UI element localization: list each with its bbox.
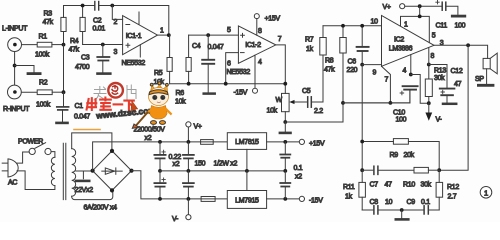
wire pin9 feed: [362, 64, 381, 66]
junction dot output IC1-1: [167, 33, 171, 37]
junction dot film cap mid: [187, 169, 191, 173]
connector J2 R-INPUT jack: [7, 85, 21, 99]
svg-text:x2: x2: [295, 174, 302, 181]
watermark char outline 2: [127, 85, 136, 99]
resistor R4: [80, 6, 85, 45]
svg-text:V+: V+: [383, 4, 391, 11]
svg-text:C8: C8: [370, 199, 379, 206]
wire C6 column down: [361, 65, 363, 171]
svg-text:R12: R12: [447, 184, 459, 191]
svg-text:7: 7: [385, 77, 389, 84]
wire top input LM3886: [323, 25, 382, 27]
resistor R6: [186, 35, 191, 84]
junction dot pin6: [224, 82, 228, 86]
node A junction dot: [62, 43, 66, 47]
wire bridge plus to V+ rail: [93, 142, 228, 171]
ground bar input shield: [28, 72, 40, 75]
svg-text:8: 8: [431, 53, 435, 60]
wire V- terminal stub: [187, 199, 189, 215]
wire secondary top to bridge: [72, 133, 112, 150]
svg-text:20k: 20k: [404, 152, 415, 159]
junction dot regulator ground: [245, 169, 249, 173]
capacitor C17 0.1 upper: [280, 142, 290, 171]
svg-text:V-: V-: [172, 216, 179, 222]
svg-text:0.1: 0.1: [421, 199, 430, 206]
resistor R12: [436, 170, 443, 210]
op-amp IC2 LM3886: [382, 16, 435, 67]
op-amp IC1-2: [238, 26, 275, 63]
svg-text:8: 8: [258, 28, 262, 35]
svg-text:V+: V+: [194, 124, 202, 131]
wire pin8 stub: [256, 19, 258, 36]
junction dot main cap bottom: [158, 197, 162, 201]
svg-text:-15V: -15V: [234, 90, 248, 97]
junction dot pin8: [427, 63, 431, 67]
watermark cursor arrow: [131, 101, 138, 113]
junction dot V+ tap: [418, 4, 422, 8]
wire pot ground stub: [284, 122, 286, 132]
junction dot C3 tap: [101, 43, 105, 47]
svg-text:LM3886: LM3886: [389, 46, 413, 53]
svg-text:9: 9: [373, 70, 377, 77]
terminal -15V PSU: [299, 196, 304, 201]
junction dot shield: [13, 64, 17, 68]
svg-text:10: 10: [371, 18, 379, 25]
wire pin8 lead: [428, 48, 430, 65]
watermark char outline 1: [94, 87, 106, 101]
svg-text:R13: R13: [434, 67, 446, 74]
wire plug to switch: [17, 152, 29, 163]
svg-text:100k: 100k: [36, 102, 51, 109]
svg-text:10k: 10k: [175, 98, 186, 105]
svg-text:C2: C2: [93, 18, 102, 25]
svg-text:7: 7: [278, 36, 282, 43]
wire R10 to corner: [428, 169, 439, 171]
svg-text:1: 1: [484, 189, 488, 198]
ground bar C3: [98, 72, 111, 75]
svg-text:4: 4: [258, 59, 262, 66]
junction dot pin2 riser top: [110, 4, 114, 8]
capacitor C11: [436, 1, 446, 11]
regulator U4 LM7915: [227, 191, 266, 209]
svg-text:6A/200V x4: 6A/200V x4: [84, 204, 118, 211]
resistor R10: [414, 167, 428, 173]
terminal +15V IC1-2: [254, 14, 259, 19]
svg-text:2.7: 2.7: [448, 194, 457, 201]
svg-text:1: 1: [404, 22, 408, 29]
svg-text:R1: R1: [39, 34, 48, 41]
resistor R9: [393, 139, 408, 145]
transformer T1 secondary: [72, 149, 76, 197]
speaker SP: [483, 53, 497, 84]
svg-text:R8: R8: [325, 58, 334, 65]
svg-text:47: 47: [454, 81, 462, 88]
resistor R7: [320, 26, 326, 102]
capacitor C4: [202, 35, 214, 92]
wire top feedback: [64, 6, 169, 34]
junction dot bridge left: [91, 169, 95, 173]
wire switch to primary: [51, 152, 55, 158]
svg-text:NE5532: NE5532: [227, 69, 251, 76]
junction dot C6 top: [360, 24, 364, 28]
wire zero volt rail: [160, 170, 285, 172]
junction dot -15V branch: [283, 197, 287, 201]
wire minus rail IC1-2: [170, 83, 286, 85]
svg-text:W: W: [276, 97, 283, 104]
node marker circled 1: [480, 187, 492, 199]
junction dot bridge right: [129, 169, 133, 173]
svg-text:47: 47: [385, 182, 393, 189]
svg-text:6: 6: [227, 61, 231, 68]
wire R8 node to C10: [343, 90, 410, 103]
svg-text:+15V: +15V: [265, 15, 281, 22]
ground bar C12: [443, 103, 456, 106]
svg-text:0.1: 0.1: [294, 165, 303, 172]
switch S1: [29, 143, 51, 155]
svg-text:220: 220: [347, 67, 358, 74]
wire bottom feedback: [362, 209, 439, 211]
junction dot V- node: [427, 101, 431, 105]
bridge rectifier D1-D4: [93, 151, 132, 191]
junction dot C6 bottom: [360, 63, 364, 67]
junction dot 0.1 mid: [283, 169, 287, 173]
terminal -15V IC1-2: [253, 88, 258, 93]
svg-text:30k: 30k: [421, 182, 432, 189]
svg-text:100: 100: [455, 23, 466, 30]
junction dot R4 top: [81, 4, 85, 8]
junction dot R8 bottom: [341, 101, 345, 105]
svg-text:R11: R11: [343, 184, 355, 191]
wire V+ terminal stub: [187, 127, 189, 142]
ground bar center tap: [76, 180, 89, 183]
terminal V- PSU: [186, 215, 191, 220]
wire secondary bottom to bridge: [72, 192, 113, 200]
svg-text:R5: R5: [154, 70, 163, 77]
svg-text:100: 100: [396, 116, 407, 123]
capacitor C16 0.22 lower: [183, 171, 194, 199]
wire L-jack to R1: [22, 44, 37, 46]
svg-text:C4: C4: [192, 43, 201, 50]
ground bar pot: [280, 132, 291, 135]
wire R1 to node A: [52, 44, 64, 46]
ground bar C11: [452, 15, 465, 18]
capacitor C7: [362, 166, 414, 174]
resistor R1: [37, 42, 52, 47]
svg-text:47k: 47k: [43, 19, 54, 26]
power symbol V- arrow: [425, 103, 432, 121]
ground bar C1: [57, 122, 68, 125]
junction dot main cap mid: [158, 169, 162, 173]
junction dot output rail: [283, 82, 287, 86]
terminal V+ PSU: [186, 122, 191, 127]
capacitor C1: [57, 107, 69, 122]
svg-text:4700: 4700: [75, 64, 90, 71]
op-amp IC1-1: [123, 12, 158, 57]
svg-text:R2: R2: [39, 79, 48, 86]
svg-text:x2: x2: [173, 161, 180, 168]
capacitor C14 22000u lower: [154, 171, 165, 199]
capacitor C18 0.1 lower: [280, 171, 290, 199]
junction dot output feedback tap: [466, 43, 470, 47]
junction dot R6 bottom: [187, 82, 191, 86]
svg-text:C11: C11: [436, 23, 448, 30]
svg-text:AC: AC: [8, 179, 17, 186]
wire LM7915 ground pin: [246, 171, 248, 191]
junction dot pin7: [389, 101, 393, 105]
capacitor C15 0.22 upper: [183, 142, 194, 171]
resistor R15 150 lower: [201, 197, 215, 202]
junction dot bridge top: [110, 149, 114, 153]
svg-text:C3: C3: [81, 55, 90, 62]
svg-text:C9: C9: [407, 199, 416, 206]
ground bar C4: [204, 92, 215, 95]
svg-text:3: 3: [114, 49, 118, 56]
ground bar speaker: [478, 84, 493, 87]
junction dot R2 node: [62, 90, 66, 94]
junction dot R9 left: [360, 140, 364, 144]
svg-text:R6: R6: [176, 90, 185, 97]
connector J1 L-INPUT jack: [8, 38, 22, 52]
regulator U3 LM7815: [227, 133, 266, 150]
wire R4 to pin3: [83, 44, 123, 46]
wire R9 branch: [362, 142, 439, 171]
svg-text:1/2W x2: 1/2W x2: [214, 160, 238, 167]
svg-text:C6: C6: [348, 59, 357, 66]
wire IC1-2 output: [276, 45, 286, 94]
capacitor C9: [424, 206, 428, 214]
svg-text:1k: 1k: [306, 46, 314, 53]
svg-text:2.2: 2.2: [314, 108, 323, 115]
junction dot pin4: [409, 73, 413, 77]
wire R2 to node: [52, 91, 63, 93]
wire pin4 stub: [254, 55, 256, 88]
resistor R13: [425, 65, 432, 104]
svg-text:0.01: 0.01: [93, 26, 106, 33]
svg-text:0.047: 0.047: [74, 114, 90, 121]
svg-text:IC2: IC2: [394, 37, 404, 44]
svg-text:2: 2: [114, 19, 118, 26]
wire +15V output: [267, 141, 300, 143]
svg-text:+15V: +15V: [309, 141, 325, 148]
svg-text:R-INPUT: R-INPUT: [3, 106, 30, 113]
svg-text:5: 5: [227, 27, 231, 34]
wire pot to R8 column: [285, 103, 343, 122]
junction dot C4 top: [206, 33, 210, 37]
junction dot film cap bottom: [187, 197, 191, 201]
transformer core: [63, 143, 66, 199]
wire feedback column: [439, 45, 468, 170]
wire output LM3886: [434, 45, 488, 58]
svg-text:IC1-2: IC1-2: [245, 42, 261, 49]
wire pin4 jog to V- node: [411, 75, 429, 104]
svg-text:30k: 30k: [434, 75, 445, 82]
svg-text:0.047: 0.047: [208, 44, 224, 51]
wire shield to ground: [15, 66, 34, 73]
potentiometer W: [282, 93, 308, 111]
ground bar feedback: [396, 210, 409, 219]
terminal V+: [400, 4, 405, 9]
watermark red text weiku: [87, 98, 134, 111]
svg-text:L-INPUT: L-INPUT: [2, 26, 28, 33]
svg-text:5: 5: [432, 33, 436, 40]
svg-text:10k: 10k: [267, 107, 278, 114]
junction dot film cap top: [187, 140, 191, 144]
wire node down to C1: [63, 92, 65, 106]
wire pin6 riser: [226, 53, 239, 84]
svg-text:47k: 47k: [324, 67, 335, 74]
svg-text:150: 150: [195, 160, 206, 167]
svg-text:R4: R4: [70, 38, 79, 45]
svg-text:V-: V-: [436, 116, 443, 123]
svg-text:IC1-1: IC1-1: [126, 33, 142, 40]
svg-text:100k: 100k: [35, 52, 50, 59]
junction dot bottom ground: [400, 208, 404, 212]
svg-text:R7: R7: [305, 36, 314, 43]
svg-text:C7: C7: [370, 182, 379, 189]
wire center tap: [76, 170, 92, 172]
svg-text:47k: 47k: [69, 47, 80, 54]
resistor R3: [61, 6, 66, 43]
wire C10 bottom corner: [343, 102, 410, 104]
svg-text:10: 10: [385, 199, 393, 206]
watermark mascot: [74, 82, 171, 130]
resistor R5: [167, 35, 172, 84]
svg-text:22Vx2: 22Vx2: [75, 187, 94, 194]
svg-text:C1: C1: [75, 103, 84, 110]
svg-text:0.22: 0.22: [169, 154, 182, 161]
capacitor C13 22000u upper: [154, 142, 165, 171]
connector AC plug: [2, 159, 18, 177]
wire -15V output: [267, 198, 300, 200]
capacitor C10: [400, 86, 418, 103]
terminal +15V PSU: [299, 139, 304, 144]
junction dot +15V branch: [283, 140, 287, 144]
wire pin5 feed: [189, 34, 239, 36]
svg-text:R9: R9: [390, 152, 399, 159]
capacitor C6: [357, 26, 369, 65]
junction dot bridge bottom: [110, 188, 114, 192]
wire LM7815 ground pin: [246, 149, 248, 171]
resistor R8: [340, 26, 346, 103]
junction dot C7 left: [360, 168, 364, 172]
svg-text:-15V: -15V: [309, 198, 323, 205]
junction dot R8 top: [341, 24, 345, 28]
svg-text:LM7915: LM7915: [235, 198, 259, 205]
capacitor C5: [308, 97, 323, 107]
svg-text:LM7815: LM7815: [235, 139, 259, 146]
wire R-jack to R2: [21, 91, 37, 93]
transformer T1 primary: [51, 157, 55, 185]
wire jack shield vertical: [14, 52, 16, 85]
junction dot R10 right: [437, 168, 441, 172]
svg-text:C12: C12: [451, 68, 463, 75]
resistor R14 150 upper: [201, 140, 214, 145]
svg-text:POWER: POWER: [18, 138, 43, 145]
svg-text:C5: C5: [302, 88, 311, 95]
wire pot bottom: [284, 112, 286, 122]
wire center tap ground stub: [82, 171, 84, 179]
capacitor C2: [95, 2, 99, 11]
wire pin1 pin5 feed: [401, 6, 430, 42]
svg-text:4: 4: [403, 67, 407, 74]
svg-text:1k: 1k: [345, 194, 353, 201]
wire bridge minus to V- rail: [132, 171, 228, 199]
capacitor C12: [429, 65, 455, 103]
wire pin2 riser: [112, 6, 122, 20]
junction dot pin1 wire: [418, 15, 422, 19]
junction dot pot ground: [283, 120, 287, 124]
svg-text:1: 1: [160, 28, 164, 35]
svg-text:R10: R10: [403, 182, 415, 189]
junction dot main cap top: [158, 140, 162, 144]
svg-text:SP: SP: [475, 76, 484, 83]
resistor R11: [359, 170, 366, 210]
wire V+ rail top: [405, 6, 458, 14]
svg-text:R3: R3: [44, 11, 53, 18]
svg-text:NE5532: NE5532: [122, 60, 146, 67]
wire plug bottom loop: [17, 171, 55, 190]
watermark logo ring: [108, 83, 123, 98]
capacitor C8: [374, 206, 378, 214]
resistor R2: [37, 90, 52, 95]
wire IC1-1 output: [158, 34, 169, 36]
wire pin7 lead: [382, 66, 391, 103]
capacitor C3: [97, 45, 109, 73]
svg-text:x2: x2: [145, 135, 152, 142]
wire node A vertical to R2 row: [63, 45, 65, 93]
wire pin4 lead: [410, 55, 412, 75]
